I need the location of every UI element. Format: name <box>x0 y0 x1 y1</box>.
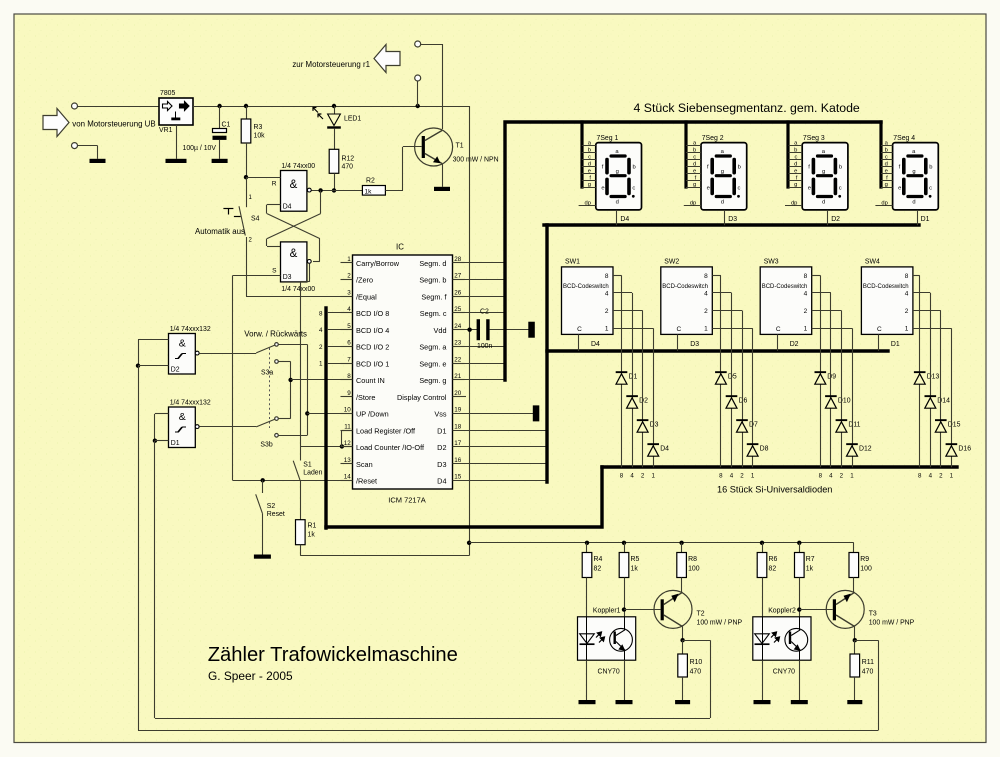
svg-text:D4: D4 <box>620 216 629 223</box>
svg-text:g: g <box>912 169 915 175</box>
svg-text:4: 4 <box>319 327 323 334</box>
svg-text:300 mW / NPN: 300 mW / NPN <box>453 157 499 164</box>
svg-text:1: 1 <box>804 326 808 333</box>
svg-text:10k: 10k <box>254 133 266 140</box>
svg-text:e: e <box>693 168 696 174</box>
svg-text:Carry/Borrow: Carry/Borrow <box>356 259 400 268</box>
svg-text:D15: D15 <box>948 422 961 429</box>
svg-text:R12: R12 <box>342 156 355 163</box>
svg-text:d: d <box>721 199 724 205</box>
svg-text:14: 14 <box>344 473 352 480</box>
svg-text:dp: dp <box>791 200 797 206</box>
svg-text:d: d <box>794 161 797 167</box>
svg-text:11: 11 <box>344 423 351 430</box>
svg-text:8: 8 <box>347 373 351 380</box>
svg-text:Vdd: Vdd <box>434 326 447 335</box>
svg-text:8: 8 <box>819 473 823 480</box>
svg-text:D3: D3 <box>690 341 699 348</box>
svg-text:1/4 74xx00: 1/4 74xx00 <box>281 286 315 293</box>
svg-text:/Equal: /Equal <box>356 292 377 301</box>
svg-text:D8: D8 <box>760 446 769 453</box>
svg-text:19: 19 <box>454 407 462 414</box>
svg-text:CNY70: CNY70 <box>773 668 795 675</box>
svg-text:R10: R10 <box>690 659 703 666</box>
svg-text:1: 1 <box>319 360 323 367</box>
svg-text:S3a: S3a <box>261 370 273 377</box>
svg-text:Segm. g: Segm. g <box>419 376 446 385</box>
svg-text:dp: dp <box>881 200 887 206</box>
svg-text:D2: D2 <box>790 341 799 348</box>
svg-text:Automatik aus: Automatik aus <box>195 227 245 236</box>
svg-text:D7: D7 <box>749 422 758 429</box>
svg-text:D3: D3 <box>283 274 292 281</box>
svg-text:Load Counter /IO-Off: Load Counter /IO-Off <box>356 443 425 452</box>
svg-text:470: 470 <box>862 668 874 675</box>
svg-text:4: 4 <box>730 473 734 480</box>
svg-text:BCD-Codeswitch: BCD-Codeswitch <box>762 284 808 290</box>
svg-text:D4: D4 <box>660 446 669 453</box>
svg-text:16: 16 <box>454 457 462 464</box>
svg-text:100: 100 <box>688 565 700 572</box>
svg-text:zur Motorsteuerung r1: zur Motorsteuerung r1 <box>292 60 370 69</box>
svg-text:D11: D11 <box>848 422 860 429</box>
svg-text:T2: T2 <box>697 610 705 617</box>
svg-text:S4: S4 <box>251 216 260 223</box>
svg-text:1k: 1k <box>806 565 814 572</box>
svg-text:100 mW / PNP: 100 mW / PNP <box>869 619 915 626</box>
svg-text:d: d <box>588 161 591 167</box>
svg-text:SW2: SW2 <box>664 258 679 265</box>
svg-text:b: b <box>738 165 741 171</box>
svg-text:d: d <box>616 199 619 205</box>
svg-text:SW4: SW4 <box>865 258 880 265</box>
svg-text:1: 1 <box>751 473 755 480</box>
svg-text:b: b <box>632 165 635 171</box>
svg-text:b: b <box>839 165 842 171</box>
svg-text:/Reset: /Reset <box>356 476 377 485</box>
svg-text:/Store: /Store <box>356 393 375 402</box>
svg-text:&: & <box>179 338 186 350</box>
svg-text:&: & <box>290 179 298 191</box>
svg-text:D2: D2 <box>437 443 446 452</box>
svg-text:R2: R2 <box>366 178 375 185</box>
svg-text:Load Register /Off: Load Register /Off <box>356 426 416 435</box>
svg-text:e: e <box>794 168 797 174</box>
svg-text:7Seg 3: 7Seg 3 <box>803 135 825 142</box>
svg-text:100µ / 10V: 100µ / 10V <box>183 145 217 152</box>
svg-text:D16: D16 <box>958 446 971 453</box>
svg-text:R5: R5 <box>631 556 640 563</box>
svg-text:e: e <box>707 185 710 191</box>
svg-text:T3: T3 <box>869 610 877 617</box>
svg-text:c: c <box>632 185 635 191</box>
svg-text:g: g <box>588 182 591 188</box>
svg-text:g: g <box>721 169 724 175</box>
svg-text:/Zero: /Zero <box>356 276 373 285</box>
svg-text:D3: D3 <box>437 460 446 469</box>
svg-text:1/4 74xxx132: 1/4 74xxx132 <box>170 326 211 333</box>
svg-text:c: c <box>794 155 797 161</box>
svg-text:12: 12 <box>344 440 352 447</box>
svg-text:Segm. c: Segm. c <box>420 309 447 318</box>
svg-text:g: g <box>693 182 696 188</box>
svg-text:g: g <box>616 169 619 175</box>
svg-text:18: 18 <box>454 423 462 430</box>
svg-text:d: d <box>885 161 888 167</box>
svg-text:22: 22 <box>454 356 462 363</box>
svg-text:4: 4 <box>829 473 833 480</box>
svg-text:S: S <box>272 267 277 274</box>
svg-text:e: e <box>885 168 888 174</box>
svg-text:T1: T1 <box>456 142 464 149</box>
svg-text:8: 8 <box>918 473 922 480</box>
svg-text:Vorw. / Rückwärts: Vorw. / Rückwärts <box>244 329 307 338</box>
svg-text:D1: D1 <box>891 341 900 348</box>
svg-text:2: 2 <box>319 344 323 351</box>
svg-text:d: d <box>822 199 825 205</box>
svg-text:BCD I/O 8: BCD I/O 8 <box>356 309 389 318</box>
svg-text:R6: R6 <box>769 556 778 563</box>
svg-text:S3b: S3b <box>260 442 272 449</box>
svg-text:7Seg 2: 7Seg 2 <box>702 135 724 142</box>
svg-text:27: 27 <box>454 273 462 280</box>
svg-text:b: b <box>929 165 932 171</box>
svg-text:8: 8 <box>804 273 808 280</box>
svg-text:4: 4 <box>605 290 609 297</box>
svg-text:VR1: VR1 <box>159 127 173 134</box>
svg-text:D2: D2 <box>831 216 840 223</box>
svg-text:c: c <box>929 185 932 191</box>
svg-text:100 mW / PNP: 100 mW / PNP <box>697 619 743 626</box>
svg-text:Segm. e: Segm. e <box>419 359 446 368</box>
svg-text:Scan: Scan <box>356 460 373 469</box>
svg-text:IC: IC <box>396 242 404 251</box>
svg-text:1/4 74xxx132: 1/4 74xxx132 <box>170 400 211 407</box>
svg-text:1k: 1k <box>365 188 373 195</box>
svg-text:D4: D4 <box>591 341 600 348</box>
svg-text:Display Control: Display Control <box>397 393 447 402</box>
svg-text:10: 10 <box>344 407 352 414</box>
svg-text:S2: S2 <box>267 503 276 510</box>
svg-text:c: c <box>588 155 591 161</box>
svg-text:SW1: SW1 <box>565 258 580 265</box>
svg-text:1: 1 <box>704 326 708 333</box>
svg-text:e: e <box>588 168 591 174</box>
svg-text:2: 2 <box>641 473 645 480</box>
svg-text:8: 8 <box>319 310 323 317</box>
svg-text:c: c <box>738 185 741 191</box>
svg-text:S1: S1 <box>303 462 312 469</box>
svg-text:4 Stück Siebensegmentanz. gem.: 4 Stück Siebensegmentanz. gem. Katode <box>634 101 860 115</box>
svg-text:D13: D13 <box>927 374 940 381</box>
svg-text:20: 20 <box>454 390 462 397</box>
svg-text:LED1: LED1 <box>344 116 361 123</box>
svg-text:UP /Down: UP /Down <box>356 410 389 419</box>
svg-text:C: C <box>776 326 781 333</box>
svg-text:16 Stück Si-Universaldioden: 16 Stück Si-Universaldioden <box>717 485 832 495</box>
svg-text:BCD I/O 1: BCD I/O 1 <box>356 359 389 368</box>
svg-text:8: 8 <box>719 473 723 480</box>
svg-text:2: 2 <box>905 308 909 315</box>
svg-text:Segm. a: Segm. a <box>419 343 447 352</box>
svg-text:1: 1 <box>651 473 655 480</box>
svg-text:R1: R1 <box>308 523 317 530</box>
svg-text:&: & <box>179 411 186 423</box>
svg-text:dp: dp <box>690 200 696 206</box>
svg-text:von Motorsteuerung UB: von Motorsteuerung UB <box>72 119 155 128</box>
svg-text:c: c <box>839 185 842 191</box>
svg-text:1: 1 <box>605 326 609 333</box>
svg-text:26: 26 <box>454 289 462 296</box>
svg-text:470: 470 <box>690 668 702 675</box>
svg-text:2: 2 <box>939 473 943 480</box>
svg-text:4: 4 <box>905 290 909 297</box>
svg-text:2: 2 <box>347 273 351 280</box>
svg-text:Segm. f: Segm. f <box>421 292 447 301</box>
svg-text:82: 82 <box>594 565 602 572</box>
svg-text:82: 82 <box>769 565 777 572</box>
svg-text:b: b <box>794 148 797 154</box>
svg-text:3: 3 <box>347 289 351 296</box>
svg-text:C: C <box>577 326 582 333</box>
svg-text:2: 2 <box>840 473 844 480</box>
svg-text:G. Speer - 2005: G. Speer - 2005 <box>208 669 293 683</box>
svg-text:g: g <box>794 182 797 188</box>
svg-text:c: c <box>885 155 888 161</box>
svg-text:D2: D2 <box>171 367 180 374</box>
svg-text:R11: R11 <box>862 659 874 666</box>
svg-text:b: b <box>693 148 696 154</box>
svg-text:R8: R8 <box>688 556 697 563</box>
svg-text:4: 4 <box>704 290 708 297</box>
svg-text:Segm. d: Segm. d <box>419 259 446 268</box>
svg-text:BCD I/O 2: BCD I/O 2 <box>356 343 389 352</box>
svg-text:C: C <box>877 326 882 333</box>
svg-text:D2: D2 <box>639 398 648 405</box>
svg-text:C2: C2 <box>480 309 489 316</box>
svg-text:1/4 74xx00: 1/4 74xx00 <box>281 163 315 170</box>
svg-text:1: 1 <box>347 256 351 263</box>
svg-text:dp: dp <box>585 200 591 206</box>
svg-text:1: 1 <box>905 326 909 333</box>
svg-text:D4: D4 <box>437 476 446 485</box>
svg-text:D10: D10 <box>838 398 851 405</box>
svg-text:Count IN: Count IN <box>356 376 385 385</box>
svg-text:2: 2 <box>804 308 808 315</box>
svg-text:D1: D1 <box>921 216 930 223</box>
svg-text:9: 9 <box>347 390 351 397</box>
svg-text:Segm. b: Segm. b <box>419 276 446 285</box>
svg-text:D3: D3 <box>650 422 659 429</box>
svg-text:D1: D1 <box>437 426 446 435</box>
svg-text:1: 1 <box>950 473 954 480</box>
svg-text:BCD I/O 4: BCD I/O 4 <box>356 326 389 335</box>
svg-text:8: 8 <box>620 473 624 480</box>
svg-text:d: d <box>693 161 696 167</box>
svg-text:D4: D4 <box>283 204 292 211</box>
svg-text:470: 470 <box>342 163 354 170</box>
svg-text:R4: R4 <box>594 556 603 563</box>
svg-text:4: 4 <box>929 473 933 480</box>
svg-text:2: 2 <box>740 473 744 480</box>
svg-text:1k: 1k <box>631 565 639 572</box>
svg-text:C: C <box>676 326 681 333</box>
svg-text:b: b <box>885 148 888 154</box>
svg-text:R9: R9 <box>860 556 869 563</box>
svg-text:R7: R7 <box>806 556 815 563</box>
svg-text:Vss: Vss <box>434 410 447 419</box>
svg-text:24: 24 <box>454 323 462 330</box>
svg-text:g: g <box>822 169 825 175</box>
svg-text:23: 23 <box>454 340 462 347</box>
svg-text:8: 8 <box>704 273 708 280</box>
svg-text:D3: D3 <box>728 216 737 223</box>
svg-text:2: 2 <box>704 308 708 315</box>
svg-text:Reset: Reset <box>267 511 285 518</box>
svg-text:8: 8 <box>605 273 609 280</box>
svg-text:D9: D9 <box>827 374 836 381</box>
svg-text:b: b <box>588 148 591 154</box>
svg-text:2: 2 <box>605 308 609 315</box>
svg-text:13: 13 <box>344 457 352 464</box>
svg-text:c: c <box>693 155 696 161</box>
svg-text:Laden: Laden <box>303 469 322 476</box>
svg-text:&: & <box>290 248 298 260</box>
svg-text:7805: 7805 <box>160 90 175 97</box>
svg-text:BCD-Codeswitch: BCD-Codeswitch <box>662 284 708 290</box>
svg-text:D14: D14 <box>937 398 950 405</box>
svg-text:Koppler2: Koppler2 <box>768 607 796 614</box>
svg-text:Zähler Trafowickelmaschine: Zähler Trafowickelmaschine <box>208 644 458 666</box>
svg-text:SW3: SW3 <box>764 258 779 265</box>
svg-text:e: e <box>808 185 811 191</box>
svg-text:d: d <box>912 199 915 205</box>
svg-text:e: e <box>898 185 901 191</box>
svg-text:7Seg 4: 7Seg 4 <box>893 135 915 142</box>
svg-text:4: 4 <box>630 473 634 480</box>
svg-text:R3: R3 <box>254 124 263 131</box>
svg-text:7Seg 1: 7Seg 1 <box>597 135 619 142</box>
svg-text:D1: D1 <box>171 440 180 447</box>
svg-text:e: e <box>601 185 604 191</box>
svg-text:100: 100 <box>860 565 872 572</box>
svg-text:6: 6 <box>347 340 351 347</box>
svg-text:g: g <box>885 182 888 188</box>
svg-text:C1: C1 <box>222 122 231 129</box>
svg-text:1: 1 <box>850 473 854 480</box>
svg-text:BCD-Codeswitch: BCD-Codeswitch <box>863 284 909 290</box>
svg-text:CNY70: CNY70 <box>598 668 620 675</box>
svg-text:D5: D5 <box>728 374 737 381</box>
svg-text:1k: 1k <box>308 532 316 539</box>
svg-text:Koppler1: Koppler1 <box>593 607 621 614</box>
svg-text:BCD-Codeswitch: BCD-Codeswitch <box>563 284 609 290</box>
svg-text:15: 15 <box>454 473 462 480</box>
svg-text:ICM 7217A: ICM 7217A <box>388 496 426 505</box>
svg-text:5: 5 <box>347 323 351 330</box>
svg-text:D12: D12 <box>859 446 872 453</box>
svg-text:8: 8 <box>905 273 909 280</box>
svg-text:100n: 100n <box>477 343 492 350</box>
svg-text:4: 4 <box>804 290 808 297</box>
svg-text:7: 7 <box>347 356 351 363</box>
svg-text:R: R <box>272 180 277 187</box>
